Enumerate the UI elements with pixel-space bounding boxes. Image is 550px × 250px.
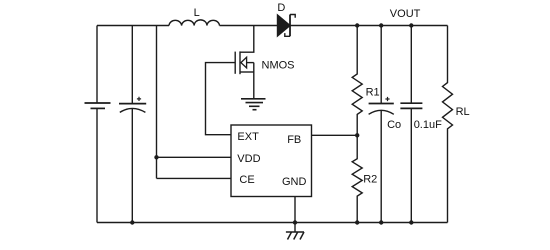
svg-text:RL: RL xyxy=(456,106,470,118)
svg-text:NMOS: NMOS xyxy=(262,60,295,72)
svg-text:0.1uF: 0.1uF xyxy=(414,119,442,131)
svg-text:EXT: EXT xyxy=(237,131,259,143)
svg-text:CE: CE xyxy=(239,174,254,186)
svg-text:VOUT: VOUT xyxy=(390,8,421,20)
svg-text:R1: R1 xyxy=(366,87,380,99)
svg-text:L: L xyxy=(194,7,200,19)
svg-text:Co: Co xyxy=(387,119,401,131)
svg-text:R2: R2 xyxy=(363,174,377,186)
svg-text:GND: GND xyxy=(282,176,307,188)
svg-text:FB: FB xyxy=(287,134,301,146)
svg-text:D: D xyxy=(277,2,285,14)
svg-text:VDD: VDD xyxy=(237,153,260,165)
